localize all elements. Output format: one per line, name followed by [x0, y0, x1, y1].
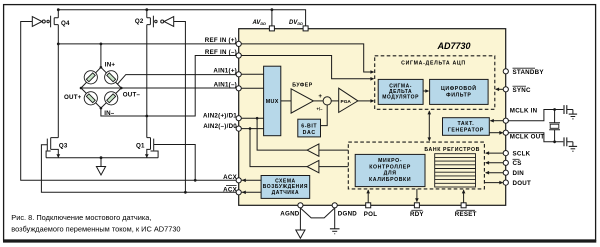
pin CS — [503, 160, 508, 165]
svg-text:ACX: ACX — [223, 174, 237, 181]
wire: clock generator to MCLK IN — [491, 120, 504, 122]
crystal oscillator circuit — [509, 110, 564, 142]
wire: tri2 input from register bank — [319, 166, 348, 168]
svg-text:CS: CS — [513, 160, 522, 167]
svg-text:Q3: Q3 — [59, 142, 68, 149]
arrow POL up — [366, 189, 370, 193]
inverter U2 (drives Q2, mirrored) — [161, 17, 174, 27]
inverter U1 (drives Q4) — [32, 17, 45, 27]
pin REF IN(+) — [236, 41, 241, 46]
wire: tri1 input from register bank — [319, 149, 348, 151]
pin DGND — [332, 203, 337, 208]
wire: RDY from register bank — [416, 189, 418, 202]
svg-text:ДЛЯ: ДЛЯ — [384, 171, 397, 177]
svg-text:МОДУЛЯТОР: МОДУЛЯТОР — [382, 94, 419, 100]
svg-text:MCLK IN: MCLK IN — [510, 108, 538, 115]
svg-text:ГЕНЕРАТОР: ГЕНЕРАТОР — [448, 128, 484, 134]
svg-text:+/–: +/– — [317, 107, 324, 112]
wire: buffer to summing node — [313, 100, 323, 102]
transistor Q1 — [147, 138, 158, 158]
digital filter block — [430, 79, 489, 104]
pin circles on IC edges — [236, 26, 508, 208]
6-bit DAC block — [298, 119, 321, 137]
svg-text:ТАКТ.: ТАКТ. — [457, 121, 474, 127]
wire: AVDD stub — [271, 10, 273, 26]
svg-text:СИГМА-ДЕЛЬТА АЦП: СИГМА-ДЕЛЬТА АЦП — [401, 60, 466, 66]
wire: AIN2(+)/D1 to MUX and buffer tri1 — [241, 118, 307, 150]
sensor excitation block — [261, 176, 310, 199]
svg-text:DAC: DAC — [303, 130, 316, 136]
pin ACX — [236, 178, 241, 183]
arrow RESET up — [462, 189, 466, 193]
svg-text:ЦИФРОВОЙ: ЦИФРОВОЙ — [441, 84, 477, 92]
svg-text:ДАТЧИКА: ДАТЧИКА — [272, 190, 300, 196]
register bank dashed box — [348, 142, 484, 189]
svg-text:Q1: Q1 — [136, 143, 145, 150]
analog ground triangle — [96, 167, 105, 176]
sigma-delta modulator block — [378, 79, 423, 104]
arrow into ADC from PGA — [370, 99, 374, 103]
wire: common source ground rail — [46, 157, 158, 159]
wire: inverter2 input riser — [174, 22, 186, 193]
wire: REF IN(+) net rail — [58, 43, 236, 45]
junction dots crystal — [553, 108, 556, 143]
wire: REF IN(-) to sigma-delta ADC — [241, 56, 373, 79]
IC AD7730 body — [239, 29, 506, 206]
svg-text:Q2: Q2 — [135, 18, 144, 25]
transistor Q3 — [46, 138, 58, 158]
svg-text:AIN2(–)/D0: AIN2(–)/D0 — [203, 123, 237, 130]
svg-text:ФИЛЬТР: ФИЛЬТР — [446, 92, 471, 98]
arrow SCLK into regbank — [485, 151, 489, 155]
svg-text:IN–: IN– — [104, 110, 115, 117]
pin AIN2(+)/D1 — [236, 116, 241, 121]
svg-text:SCLK: SCLK — [513, 150, 531, 157]
pin AIN2(-)/D0 — [236, 126, 241, 131]
analog ground symbol AGND — [296, 230, 305, 238]
wire: Q2 drain / Q1 drain shared vertical — [146, 10, 148, 138]
wire: bridge IN- to REF IN(-) — [101, 56, 236, 117]
PGA amp — [339, 88, 358, 112]
MUX block — [264, 66, 281, 136]
svg-text:OUT+: OUT+ — [64, 94, 82, 101]
wire: AIN2(-)/D0 to MUX and buffer tri2 — [241, 129, 307, 167]
svg-text:AIN1(–): AIN1(–) — [214, 82, 237, 89]
junction dots left side — [57, 8, 273, 193]
svg-text:MUX: MUX — [266, 99, 279, 105]
svg-text:6-BIT: 6-BIT — [301, 123, 317, 129]
arrow ACX to pin — [242, 179, 246, 183]
svg-text:КОНТРОЛЛЕР: КОНТРОЛЛЕР — [369, 164, 411, 170]
svg-text:STANDBY: STANDBY — [513, 69, 545, 76]
svg-text:+: + — [318, 93, 322, 100]
junction dots inside IC — [249, 117, 259, 130]
svg-text:SYNC: SYNC — [513, 87, 531, 94]
microcontroller block — [355, 154, 425, 186]
ground for C2 — [569, 146, 577, 151]
svg-text:REF IN (+): REF IN (+) — [205, 37, 237, 44]
pin MCLK IN — [503, 118, 508, 123]
svg-text:DVDD: DVDD — [289, 20, 303, 26]
bridge sensor (Wheatstone) arms — [81, 67, 121, 108]
wire: Q4 drain / Q3 drain shared vertical — [57, 10, 59, 138]
wire: modulator to filter — [423, 90, 428, 92]
pin STANDBY — [503, 69, 508, 74]
svg-text:AIN2(+)/D1: AIN2(+)/D1 — [203, 112, 237, 119]
svg-text:МИКРО-: МИКРО- — [378, 158, 402, 164]
arrow modulator to filter — [425, 89, 429, 93]
arrow MCLKOUT to pin — [499, 131, 503, 135]
wire: Q1 gate riser to ACX — [154, 145, 196, 181]
AGND / DGND external wiring — [300, 208, 334, 230]
capacitor C2 — [564, 137, 573, 146]
svg-text:ACX: ACX — [223, 186, 237, 193]
wire: AIN1(-) to MUX — [241, 87, 263, 89]
pin RESET — [461, 203, 466, 208]
wire: AVDD top rail — [58, 10, 305, 26]
wire: ground stub — [100, 158, 102, 167]
arrow ADC to regbank up — [428, 110, 432, 114]
svg-text:Q4: Q4 — [61, 20, 70, 27]
arrow ADC to regbank down — [428, 137, 432, 141]
arrow into ADC from REF- — [370, 77, 374, 81]
svg-text:POL: POL — [364, 211, 377, 218]
wire: bridge OUT- diagonal to AIN1(+) — [117, 75, 236, 85]
arrow DIN into regbank — [485, 171, 489, 175]
buffer amp — [291, 89, 313, 113]
wire: ADC to register bank vertical — [428, 111, 430, 140]
arrow RDY down — [415, 198, 419, 202]
wire: 6-bit DAC to summing node — [321, 105, 328, 126]
svg-text:БАНК РЕГИСТРОВ: БАНК РЕГИСТРОВ — [424, 147, 480, 153]
strain gauge R-D (bottom-right) — [105, 92, 118, 105]
wire: SCLK into register bank — [486, 152, 503, 154]
transistor Q2 — [147, 16, 157, 28]
strain gauge R-B (top-right) — [105, 71, 118, 84]
pin MCLK OUT — [503, 130, 508, 135]
pin AVDD — [269, 26, 274, 31]
svg-text:AVDD: AVDD — [251, 20, 266, 26]
svg-text:RDY: RDY — [410, 211, 424, 218]
crystal X1 body — [550, 124, 559, 128]
svg-text:MCLK OUT: MCLK OUT — [510, 133, 545, 140]
crystal X1 plates — [549, 123, 560, 130]
strain gauge R-C (bottom-left) — [84, 92, 97, 105]
svg-text:КАЛИБРОВКИ: КАЛИБРОВКИ — [369, 177, 411, 183]
wire: SYNC into ADC box — [496, 88, 503, 90]
pin POL — [366, 203, 371, 208]
wire: MUX to buffer — [281, 100, 291, 102]
pin SCLK — [503, 151, 508, 156]
wire: summing node to PGA — [331, 100, 339, 102]
svg-text:DIN: DIN — [513, 170, 525, 177]
svg-text:DOUT: DOUT — [513, 180, 532, 187]
svg-text:AGND: AGND — [280, 211, 299, 218]
wire: AGND stub — [299, 208, 301, 230]
internal wires of IC — [241, 44, 503, 203]
wire: bridge IN+ riser — [100, 44, 102, 67]
wire: DGND stub — [334, 208, 336, 229]
svg-text:OUT–: OUT– — [123, 92, 141, 99]
pin AIN1(+) — [236, 72, 241, 77]
wire: CS into register bank — [486, 162, 503, 164]
svg-text:IN+: IN+ — [105, 62, 116, 69]
pin DOUT — [503, 180, 508, 185]
wire: PGA output to ADC — [358, 100, 373, 102]
wire: bridge OUT+ to AIN1(-) — [81, 87, 236, 89]
arrow MCLKIN into clockgen — [490, 119, 494, 123]
pin DIN — [503, 170, 508, 175]
arrowheads — [242, 70, 504, 202]
arrow DOUT to pin — [499, 181, 503, 185]
sigma-delta ADC dashed box — [375, 56, 495, 110]
pin DVDD — [303, 26, 308, 31]
svg-text:RESET: RESET — [455, 211, 477, 218]
svg-text:Рис. 8. Подключение мостового: Рис. 8. Подключение мостового датчика, — [11, 213, 151, 222]
pin AIN1(-) — [236, 86, 241, 91]
wire: AGND-DGND jog — [300, 208, 334, 218]
wire: crystal risers — [554, 110, 556, 142]
clock generator block — [443, 118, 490, 136]
pin SYNC — [503, 87, 508, 92]
strain gauge R-A (top-left) — [84, 71, 97, 84]
transistor Q4 — [47, 16, 58, 28]
wire: MCLK IN to crystal/cap — [509, 110, 564, 121]
arrow into ADC from REF+ — [370, 70, 374, 74]
wire: DOUT from register bank — [484, 182, 502, 184]
wire: DIN into register bank — [486, 172, 503, 174]
arrow SYNC into ADC — [495, 88, 499, 92]
svg-text:REF IN (–): REF IN (–) — [205, 49, 237, 56]
pin AGND — [298, 203, 303, 208]
buffer tri1 (D1 driver) — [307, 144, 319, 156]
svg-text:DGND: DGND — [338, 211, 357, 218]
wire: Q3 gate to ACX-bar row — [41, 145, 236, 193]
wire: clock generator to MCLK OUT — [489, 132, 502, 134]
svg-text:PGA: PGA — [341, 99, 352, 105]
summing node — [323, 97, 331, 105]
wire: POL to register bank — [367, 190, 369, 202]
capacitor C1 — [564, 105, 573, 114]
wire: REF IN(+) to sigma-delta ADC — [241, 44, 373, 72]
svg-text:AIN1(+): AIN1(+) — [213, 68, 237, 75]
svg-text:AD7730: AD7730 — [436, 41, 470, 51]
svg-text:возбуждаемого переменным током: возбуждаемого переменным током, к ИС AD7… — [11, 224, 180, 233]
svg-text:БУФЕР: БУФЕР — [292, 83, 313, 89]
pin REF IN(-) — [236, 53, 241, 58]
pin RDY — [414, 203, 419, 208]
wire: AIN1(+) to MUX — [241, 73, 263, 75]
wire: inverter1 input to ACX row — [21, 22, 237, 181]
wire: MCLK OUT to crystal/cap — [509, 133, 564, 142]
ground for C1 — [569, 114, 577, 119]
register stack — [435, 154, 476, 187]
earth ground symbol DGND — [330, 229, 340, 234]
arrow ACX-bar to pin — [242, 191, 246, 195]
wire: excitation block to ACX pins — [242, 180, 262, 192]
buffer tri2 (D0 driver) — [307, 160, 319, 172]
wire: RESET to register bank — [463, 190, 465, 202]
arrow CS into regbank — [485, 161, 489, 165]
pin ACX-bar — [236, 190, 241, 195]
